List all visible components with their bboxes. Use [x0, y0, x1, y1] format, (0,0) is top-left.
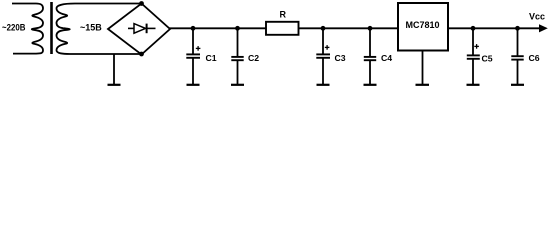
node bridge bottom junction dot [139, 52, 144, 57]
wire main rail: bridge to resistor [169, 27, 267, 29]
diode VD1 inside bridge [128, 24, 156, 34]
capacitor C6 [511, 29, 523, 85]
svg-text:R: R [280, 9, 287, 19]
output arrow head [539, 24, 548, 32]
bridge rectifier diamond [108, 4, 170, 55]
ground (regulator) [416, 84, 430, 86]
wire secondary top to bridge top corner [75, 3, 142, 5]
node C2 junction [235, 26, 240, 31]
svg-text:C5: C5 [482, 54, 493, 64]
regulator U1 box [398, 3, 448, 51]
ground (C6) [511, 84, 524, 86]
transformer T1 primary winding [12, 4, 43, 54]
svg-text:Vcc: Vcc [529, 12, 545, 22]
wire main rail: resistor to regulator [299, 27, 399, 29]
ground (C4) [364, 84, 377, 86]
node C3 junction [321, 26, 326, 31]
wire ground tap vertical [113, 54, 115, 85]
resistor R [266, 22, 299, 35]
svg-text:~15B: ~15B [80, 23, 102, 33]
plus sign C5 [474, 44, 479, 49]
svg-text:C3: C3 [335, 53, 346, 63]
capacitor C1 (polarized) [186, 29, 200, 85]
transformer core [50, 2, 53, 54]
svg-text:C4: C4 [381, 53, 392, 63]
capacitor C3 (polarized) [316, 29, 330, 85]
transformer T1 secondary winding [57, 4, 76, 55]
wire regulator ground pin [422, 51, 424, 85]
svg-text:C6: C6 [529, 53, 540, 63]
plus sign C3 [325, 45, 330, 50]
capacitor C4 [364, 29, 376, 85]
plus sign C1 [196, 46, 201, 51]
ground (C2) [231, 84, 244, 86]
node C6 junction [515, 26, 520, 31]
svg-text:C2: C2 [248, 53, 259, 63]
ground (C1) [187, 84, 200, 86]
ground (C3) [317, 84, 330, 86]
ground (transformer/bridge) [108, 84, 121, 86]
node C1 junction [191, 26, 196, 31]
wire secondary bottom to bridge bottom corner [70, 53, 142, 55]
ground (C5) [467, 84, 480, 86]
node bridge top junction dot [139, 1, 144, 6]
wire main rail: regulator to output arrow [448, 27, 540, 29]
svg-text:MC7810: MC7810 [405, 20, 439, 30]
capacitor C2 [231, 29, 243, 85]
svg-text:~220B: ~220B [2, 23, 26, 33]
svg-text:C1: C1 [206, 53, 217, 63]
node C4 junction [368, 26, 373, 31]
capacitor C5 (polarized) [467, 29, 480, 85]
node C5 junction [471, 26, 476, 31]
